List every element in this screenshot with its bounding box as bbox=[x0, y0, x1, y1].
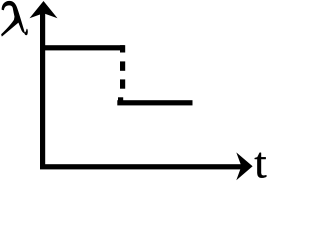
dashed drop connector: dash 2 bbox=[120, 61, 125, 70]
lambda axis label bbox=[2, 1, 28, 36]
dashed drop connector: dash 1 bbox=[120, 45, 125, 52]
x-axis shaft bbox=[40, 164, 242, 169]
y-axis shaft bbox=[40, 12, 45, 169]
dashed drop connector: dash 3 bbox=[120, 79, 125, 88]
low step segment bbox=[117, 100, 192, 105]
x-axis arrowhead bbox=[236, 152, 252, 180]
high step segment bbox=[40, 45, 125, 50]
t axis label bbox=[255, 153, 267, 178]
dashed drop connector: dash 4 bbox=[118, 97, 123, 105]
y-axis arrowhead bbox=[30, 1, 58, 18]
